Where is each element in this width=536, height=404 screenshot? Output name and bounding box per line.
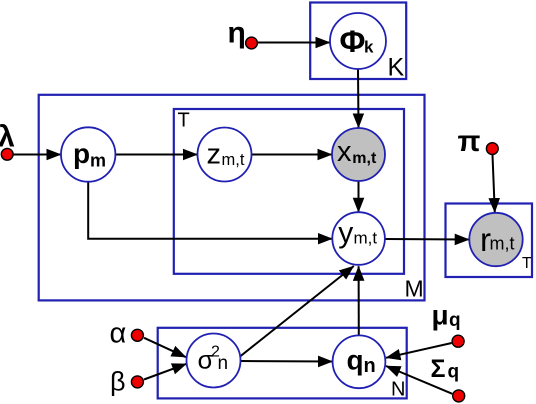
svg-text:η: η <box>228 16 246 49</box>
svg-text:q: q <box>448 362 460 383</box>
plate K <box>310 3 406 80</box>
svg-text:x: x <box>337 136 352 168</box>
svg-text:q: q <box>347 344 364 375</box>
wire x_mt to y_mt <box>358 181 360 212</box>
node z_mt <box>198 128 252 182</box>
wire alpha to sigma2_n <box>144 338 186 357</box>
wire q_n to y_mt <box>358 266 360 335</box>
node dot mu_q <box>452 335 464 347</box>
svg-text:m,t: m,t <box>490 233 515 253</box>
node Phi_k <box>330 13 386 69</box>
wire sigma2_n to y_mt diagonal <box>240 266 354 357</box>
svg-text:y: y <box>338 217 353 250</box>
wire sigma2_n to q_n <box>241 360 333 363</box>
node sigma2_n <box>187 334 241 388</box>
node q_n <box>333 335 386 388</box>
wire y_mt to r_mt <box>385 238 469 241</box>
wire mu_q to q_n <box>386 343 452 358</box>
svg-text:Φ: Φ <box>340 23 366 59</box>
node dot pi <box>486 143 498 155</box>
node dot Sigma_q <box>453 390 465 402</box>
node y_mt <box>332 212 385 265</box>
wire p_m down and right to y_mt <box>88 182 332 239</box>
svg-text:k: k <box>364 38 374 57</box>
svg-text:α: α <box>110 318 127 350</box>
node dot lambda <box>1 148 13 160</box>
wire Sigma_q to q_n <box>386 366 452 394</box>
svg-text:z: z <box>207 139 222 171</box>
svg-text:μ: μ <box>432 300 449 331</box>
node x_mt shaded <box>332 128 385 181</box>
node dot beta <box>131 376 143 388</box>
svg-text:m: m <box>90 151 106 171</box>
svg-text:q: q <box>449 310 461 331</box>
wire pi to r_mt <box>493 155 495 213</box>
svg-text:m,t: m,t <box>222 151 245 169</box>
node p_m <box>61 127 115 181</box>
node dot eta <box>246 37 258 49</box>
svg-text:M: M <box>405 275 424 301</box>
svg-text:T: T <box>178 110 190 132</box>
wire lambda to p_m <box>14 154 62 156</box>
svg-text:p: p <box>73 138 90 169</box>
plate M <box>39 95 425 301</box>
svg-text:β: β <box>110 367 126 397</box>
node dot alpha <box>131 329 143 341</box>
svg-text:π: π <box>458 125 481 158</box>
wire eta to Phi_k <box>258 42 330 44</box>
svg-text:N: N <box>391 378 405 400</box>
wire z_mt to x_mt <box>252 154 333 156</box>
svg-text:K: K <box>388 54 405 82</box>
svg-text:Σ: Σ <box>431 355 446 383</box>
svg-text:T: T <box>522 255 532 272</box>
svg-text:n: n <box>364 355 376 377</box>
plate T inner <box>174 109 404 274</box>
plate N <box>158 328 407 399</box>
wire beta to sigma2_n <box>144 364 187 380</box>
svg-text:m,t: m,t <box>354 228 378 247</box>
node r_mt shaded <box>469 213 522 266</box>
wire Phi_k to x_mt <box>357 69 360 128</box>
plate T right <box>446 204 533 278</box>
svg-text:n: n <box>218 353 229 374</box>
svg-text:m,t: m,t <box>352 150 377 167</box>
wire p_m to z_mt <box>116 154 198 156</box>
